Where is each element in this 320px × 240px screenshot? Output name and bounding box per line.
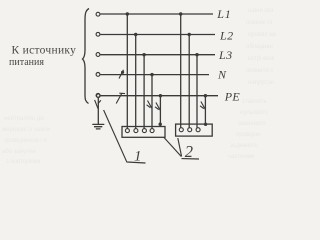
svg-text:нейтраллю дж: нейтраллю дж xyxy=(4,115,44,122)
callout underline for label 2 xyxy=(182,158,200,160)
junction PE drop9 xyxy=(204,94,207,97)
svg-text:провідником і о: провідником і о xyxy=(4,138,47,144)
leader line from box 2 to label 2 xyxy=(178,138,182,157)
wire drop 8 L3 to box 2 xyxy=(196,55,198,128)
terminal 1 of box 1 xyxy=(125,129,129,133)
junction L1 drop6 xyxy=(179,12,182,15)
bond dot PE drop to box 2 corner xyxy=(204,123,207,126)
junction L3 drop8 xyxy=(195,53,198,56)
leader line to label 1 xyxy=(104,110,146,163)
wire bus PE xyxy=(100,95,218,97)
svg-text:PE: PE xyxy=(224,90,241,104)
svg-text:1: 1 xyxy=(134,149,142,165)
svg-text:N: N xyxy=(217,68,227,82)
scan ghost smudges right margin xyxy=(228,8,276,160)
junction L2 drop2 xyxy=(134,33,137,36)
wire bus L3 xyxy=(100,54,215,56)
wire bus L2 xyxy=(100,34,215,36)
svg-text:котрі мож: котрі мож xyxy=(248,56,274,62)
terminal circle PE left xyxy=(96,94,100,98)
junction N drop4 xyxy=(150,73,153,76)
svg-text:захисного: захисного xyxy=(238,121,266,127)
terminal 2 of box 1 xyxy=(134,129,138,133)
terminal 2 of box 2 xyxy=(188,128,192,132)
switch blade on PE drop of box 2 xyxy=(200,102,205,110)
terminal circle PE to earth xyxy=(97,94,101,98)
wire bus L1 xyxy=(100,13,213,15)
junction L3 drop3 xyxy=(142,53,145,56)
ground electrode symbol xyxy=(92,124,104,128)
svg-text:частинам: частинам xyxy=(228,154,254,160)
svg-text:L3: L3 xyxy=(218,48,232,62)
wire drop 2 L2 to box 1 xyxy=(135,35,137,129)
break mark on bus N xyxy=(119,70,124,79)
terminal circle L2 left xyxy=(96,32,100,36)
terminal 4 of box 1 xyxy=(150,129,154,133)
leader line from box 1 to label 2 xyxy=(164,138,181,157)
svg-text:питания: питания xyxy=(9,57,44,68)
svg-text:обладнан: обладнан xyxy=(246,44,273,50)
svg-text:зєднаного: зєднаного xyxy=(230,143,259,149)
svg-text:повкхн ти: повкхн ти xyxy=(246,20,272,26)
svg-text:шини ого: шини ого xyxy=(248,8,274,14)
wire bus N xyxy=(100,74,209,76)
break mark dot on bus N xyxy=(121,71,124,74)
terminal circle N left xyxy=(96,73,100,77)
switch blade on PE drop of box 1 xyxy=(155,103,160,111)
svg-text:або занулен: або занулен xyxy=(2,149,36,155)
earthing conductor wire xyxy=(97,98,99,125)
svg-text:ставлять: ставлять xyxy=(242,99,267,105)
svg-text:мережах із зазем: мережах із зазем xyxy=(2,127,50,133)
svg-text:нульового: нульового xyxy=(240,110,269,116)
break mark on bus PE xyxy=(116,93,125,104)
junction L1 drop1 xyxy=(126,12,129,15)
svg-text:опинити с: опинити с xyxy=(246,68,273,74)
bond dot PE drop to box 1 corner xyxy=(159,123,162,126)
terminal box 2 xyxy=(176,124,213,136)
svg-text:2: 2 xyxy=(185,142,193,161)
terminal circle L1 left xyxy=(96,12,100,16)
wire drop 6 L1 to box 2 xyxy=(180,14,182,128)
svg-text:з повторним: з повторним xyxy=(6,159,40,165)
switch blade on earthing conductor xyxy=(95,100,101,109)
terminal 3 of box 1 xyxy=(142,129,146,133)
svg-text:L1: L1 xyxy=(216,7,231,21)
svg-text:К источнику: К источнику xyxy=(12,44,77,56)
wire drop 5 PE to box 1 xyxy=(159,96,161,127)
terminal circle L3 left xyxy=(96,53,100,57)
svg-text:L2: L2 xyxy=(219,29,233,43)
brace grouping supply lines xyxy=(83,9,90,104)
wire drop 3 L3 to box 1 xyxy=(143,55,145,129)
paper background xyxy=(0,0,285,166)
wire drop 4 N to box 1 xyxy=(151,75,153,129)
terminal 1 of box 2 xyxy=(179,128,183,132)
terminal 3 of box 2 xyxy=(196,128,200,132)
svg-text:проввл ни: проввл ни xyxy=(248,32,276,38)
terminal box 1 xyxy=(122,127,165,138)
junction PE drop5 xyxy=(159,94,162,97)
wire drop 9 PE to box 2 xyxy=(204,96,206,124)
svg-text:провідни: провідни xyxy=(236,132,261,138)
junction L2 drop7 xyxy=(188,33,191,36)
switch blade on N drop of box 1 xyxy=(147,101,152,109)
svg-text:напругою: напругою xyxy=(248,80,275,86)
wire drop 7 L2 to box 2 xyxy=(188,35,190,128)
scan ghost smudges bottom left xyxy=(2,115,50,165)
wire drop 1 L1 to box 1 xyxy=(126,14,128,129)
